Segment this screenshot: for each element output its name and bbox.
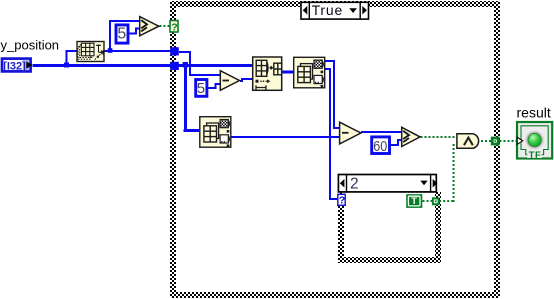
svg-text:TF: TF xyxy=(529,150,542,161)
svg-text:2: 2 xyxy=(350,175,359,192)
svg-text:y_position: y_position xyxy=(1,38,60,53)
svg-text:T: T xyxy=(411,196,417,207)
svg-text:5: 5 xyxy=(197,80,205,97)
svg-text:[I32]: [I32] xyxy=(3,60,26,72)
svg-text:?: ? xyxy=(171,21,177,33)
svg-text:True: True xyxy=(312,2,343,18)
svg-text:60: 60 xyxy=(373,138,387,155)
svg-text:?: ? xyxy=(339,195,345,207)
svg-text:5: 5 xyxy=(117,25,126,42)
svg-text:result: result xyxy=(517,105,551,121)
